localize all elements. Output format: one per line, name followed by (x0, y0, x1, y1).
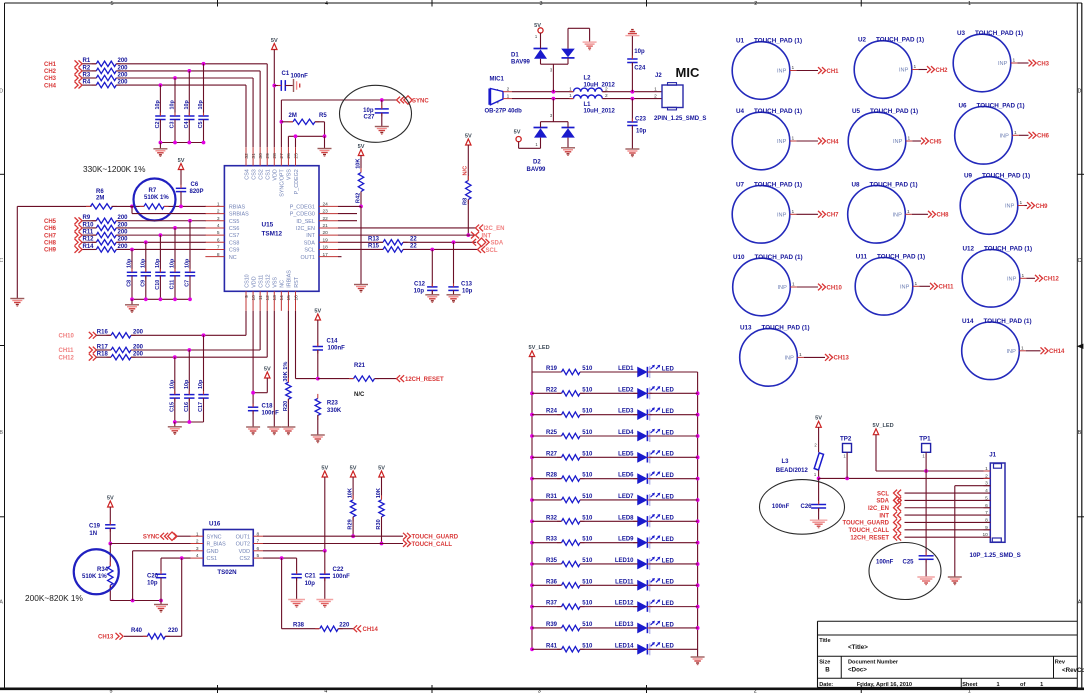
ellipse around C27 (340, 85, 412, 142)
pin 4 U15 left (205, 223, 239, 232)
offpage connector SYNC (397, 96, 430, 105)
svg-text:U12: U12 (962, 245, 974, 252)
offpage connector CH13 (825, 354, 850, 362)
svg-text:INT: INT (306, 233, 315, 239)
svg-text:5V: 5V (107, 495, 114, 501)
svg-text:CH11: CH11 (939, 285, 955, 291)
svg-text:10P_1.25_SMD_S: 10P_1.25_SMD_S (970, 552, 1021, 559)
pin 7 U15 left (205, 245, 239, 254)
svg-text:INP: INP (893, 139, 903, 145)
resistor R20 30K 1% (283, 311, 291, 427)
ground C27 (375, 127, 389, 135)
svg-text:1: 1 (791, 65, 794, 71)
svg-text:4: 4 (325, 1, 328, 7)
LED LED13 (615, 621, 675, 634)
pin 1 U16 left (191, 531, 222, 540)
svg-text:9: 9 (244, 295, 250, 298)
svg-text:CS12: CS12 (266, 274, 272, 288)
svg-text:5: 5 (257, 553, 260, 559)
offpage connector CH2 (927, 66, 948, 74)
wire CS1 net (161, 556, 191, 574)
svg-text:INT: INT (482, 233, 492, 239)
svg-text:CH7: CH7 (44, 233, 57, 239)
LED LED8 (618, 514, 674, 527)
ground cap bank1 (153, 149, 167, 157)
resistor R14 200 (83, 244, 129, 252)
svg-text:INP: INP (999, 134, 1009, 140)
offpage connector CH14 (1041, 347, 1066, 355)
ground U16 bus (154, 605, 168, 613)
touch pad U3 (953, 30, 1023, 92)
capacitor C8 10p (127, 258, 138, 299)
capacitor C17 10p (198, 379, 209, 422)
svg-text:<Doc>: <Doc> (848, 666, 867, 673)
svg-text:CS5: CS5 (229, 219, 240, 225)
svg-text:5V: 5V (815, 416, 822, 422)
svg-text:CS6: CS6 (229, 226, 240, 232)
svg-text:1: 1 (1021, 273, 1024, 279)
ground D1 (pink) (583, 42, 597, 50)
svg-text:3: 3 (196, 546, 199, 552)
svg-text:3: 3 (217, 216, 220, 222)
wire U5 to CH5 (912, 140, 921, 142)
pin 6 U15 left (205, 237, 239, 246)
offpage connector TOUCH_CALL (403, 540, 452, 548)
node CH2 (44, 68, 82, 76)
svg-text:CH10: CH10 (59, 334, 75, 340)
pin 1 U8 (905, 209, 912, 215)
ground cap bank3 (168, 427, 182, 435)
svg-text:5V: 5V (350, 465, 357, 471)
svg-text:100nF: 100nF (772, 504, 790, 510)
svg-text:R38: R38 (293, 622, 305, 628)
touch pad U12 (962, 245, 1032, 307)
ellipse around R7 (blue) (134, 179, 176, 221)
svg-text:R_BIAS: R_BIAS (207, 542, 227, 548)
pin 1 U10 (790, 282, 797, 288)
svg-text:R35: R35 (546, 558, 558, 564)
pin 1 U13 (797, 352, 804, 358)
offpage connector CH12 (1035, 275, 1060, 283)
svg-text:R34: R34 (97, 567, 109, 573)
svg-text:CS10: CS10 (244, 274, 250, 288)
svg-text:LED12: LED12 (615, 601, 634, 607)
node CH12 (59, 354, 97, 362)
svg-text:10K: 10K (355, 159, 361, 169)
offpage connector CH9 (1027, 202, 1048, 210)
svg-text:BEAD/2012: BEAD/2012 (776, 468, 809, 474)
ground LED ladder (691, 656, 705, 665)
svg-text:510: 510 (582, 515, 593, 521)
pin 2 U15 left (205, 209, 249, 218)
wire J1 pin3 ground net (955, 486, 991, 577)
wire 5V_LED to J1 pin1 (876, 435, 990, 473)
wire LED row 2 (532, 392, 698, 394)
LED LED10 (615, 557, 675, 570)
offpage connector I2C_EN (476, 225, 505, 233)
svg-text:13: 13 (272, 295, 278, 301)
wire U2 to CH2 (918, 69, 927, 71)
pin 1 J1 (984, 466, 991, 472)
wire I2C_EN net (338, 227, 476, 229)
svg-text:Friday, April 16, 2010: Friday, April 16, 2010 (857, 682, 912, 688)
ground C22 (316, 600, 333, 608)
svg-text:RBIAS: RBIAS (229, 205, 246, 211)
svg-text:1: 1 (791, 209, 794, 215)
pin 3 J1 (984, 481, 991, 487)
ground C26 (810, 520, 828, 528)
power 5V R8 (465, 133, 472, 145)
svg-text:22: 22 (410, 244, 417, 250)
diode D2 BAV99 (527, 128, 575, 173)
svg-text:20: 20 (323, 230, 329, 236)
inductor L3 BEAD/2012 (776, 427, 824, 477)
svg-text:D1: D1 (511, 53, 519, 59)
svg-text:ID_SEL: ID_SEL (296, 219, 315, 225)
wire LED row 1 (532, 371, 698, 373)
pin 1 U4 (790, 136, 797, 142)
svg-text:VDD: VDD (239, 549, 250, 555)
svg-text:10p: 10p (185, 258, 191, 268)
svg-text:R30: R30 (376, 519, 382, 529)
LED LED11 (615, 578, 674, 591)
wire LED left rail (530, 357, 534, 652)
svg-text:N/C: N/C (463, 166, 469, 176)
node CH8 (44, 239, 82, 247)
wire U4 to CH4 (796, 140, 818, 142)
power 5V C22 (321, 465, 328, 477)
svg-text:SYNC/OPT: SYNC/OPT (280, 168, 286, 196)
svg-text:TOUCH_PAD (1): TOUCH_PAD (1) (984, 318, 1032, 325)
svg-text:2: 2 (507, 87, 510, 93)
svg-text:LED4: LED4 (618, 430, 634, 436)
svg-text:U2: U2 (858, 37, 867, 44)
svg-text:10: 10 (251, 295, 257, 301)
wire mic line bottom (512, 97, 574, 101)
pin 9 U15 bottom (244, 274, 251, 311)
wire D2 right to ground (567, 138, 569, 148)
svg-text:TOUCH_PAD (1): TOUCH_PAD (1) (877, 253, 925, 260)
capacitor C12 10p (414, 249, 438, 294)
svg-text:100nF: 100nF (291, 74, 309, 80)
offpage connector 12CH_RESET (J1) (850, 534, 901, 542)
svg-text:MIC: MIC (676, 65, 700, 80)
svg-text:L3: L3 (782, 459, 790, 465)
svg-text:220: 220 (168, 628, 179, 634)
junction CH2 (187, 69, 191, 73)
svg-text:R5: R5 (319, 113, 327, 119)
svg-text:A: A (1078, 600, 1082, 606)
svg-text:12: 12 (265, 295, 271, 301)
svg-text:U7: U7 (736, 181, 745, 188)
resistor R7 510K 1% (140, 188, 170, 209)
power 5V R30 (378, 465, 385, 477)
svg-text:5V_LED: 5V_LED (873, 423, 894, 429)
ground C25 (917, 577, 935, 585)
svg-text:330K~1200K 1%: 330K~1200K 1% (83, 164, 146, 174)
svg-text:TOUCH_PAD (1): TOUCH_PAD (1) (754, 108, 802, 115)
wire VSS bottom (273, 311, 275, 427)
svg-text:CH3: CH3 (1037, 61, 1050, 67)
ground C18 (246, 427, 260, 435)
touch pad U13 (740, 324, 810, 386)
svg-text:19: 19 (323, 237, 329, 243)
ground cap bank2 (125, 305, 139, 313)
svg-text:C23: C23 (635, 117, 647, 123)
wire CH5 net (83, 220, 206, 222)
svg-text:CH8: CH8 (937, 213, 950, 219)
svg-text:5V: 5V (514, 130, 521, 136)
wire cap bank1 verticals (160, 64, 203, 116)
node CH3 (44, 75, 82, 83)
svg-text:MIC1: MIC1 (490, 77, 505, 83)
ground C24 (inverted) (625, 30, 639, 36)
svg-text:1: 1 (907, 209, 910, 215)
svg-text:TP1: TP1 (919, 435, 931, 442)
zone letters right (1078, 89, 1082, 606)
svg-text:R7: R7 (149, 188, 157, 194)
svg-text:510: 510 (582, 473, 593, 479)
svg-text:C12: C12 (414, 282, 426, 288)
capacitor C6 820P (176, 170, 204, 207)
offpage connector CH5 (921, 138, 942, 146)
svg-text:1: 1 (1021, 345, 1024, 351)
svg-text:1: 1 (968, 1, 971, 7)
svg-text:LED1: LED1 (618, 366, 634, 372)
svg-text:C6: C6 (191, 182, 199, 188)
pin 21 U15 right (296, 223, 338, 232)
svg-text:12CH_RESET: 12CH_RESET (850, 535, 889, 541)
wire LED row 13 (532, 627, 698, 629)
svg-text:C25: C25 (903, 560, 915, 566)
svg-text:J1: J1 (989, 451, 996, 458)
wire D1 cathode to 5V (540, 33, 542, 49)
svg-text:P_CDEG2: P_CDEG2 (294, 169, 300, 194)
resistor R18 200 (97, 352, 144, 360)
svg-text:CH1: CH1 (827, 69, 840, 75)
capacitor C20 10p (147, 571, 166, 601)
svg-text:R25: R25 (546, 430, 558, 436)
power 5V C19 (107, 495, 114, 507)
svg-text:CH4: CH4 (827, 139, 840, 145)
svg-text:TOUCH_CALL: TOUCH_CALL (412, 542, 453, 548)
svg-text:10p: 10p (147, 580, 158, 586)
svg-text:R41: R41 (546, 643, 558, 649)
svg-text:TOUCH_PAD (1): TOUCH_PAD (1) (870, 108, 918, 115)
svg-text:R32: R32 (546, 515, 558, 521)
resistor R22 510 (546, 387, 593, 396)
ground R23 (311, 435, 325, 443)
svg-text:R36: R36 (546, 579, 558, 585)
svg-text:5V_LED: 5V_LED (529, 345, 550, 351)
svg-text:CH13: CH13 (98, 635, 114, 641)
junction CH4 (159, 83, 163, 87)
svg-text:1: 1 (196, 531, 199, 537)
svg-text:SYNC: SYNC (412, 98, 429, 104)
svg-text:R19: R19 (546, 366, 558, 372)
svg-text:5: 5 (111, 1, 114, 7)
svg-text:100nF: 100nF (876, 560, 894, 566)
svg-text:100nF: 100nF (262, 411, 280, 417)
ground R20 (281, 427, 295, 435)
svg-text:Title: Title (819, 638, 830, 644)
wire CH1 net (83, 64, 268, 147)
svg-text:C13: C13 (461, 282, 473, 288)
svg-text:CH2: CH2 (44, 69, 57, 75)
power 5V C14 (314, 308, 321, 320)
resistor R8 10K N/C (463, 145, 472, 235)
resistor R1 (83, 58, 129, 66)
svg-text:23: 23 (323, 209, 329, 215)
svg-text:B: B (825, 666, 830, 673)
svg-text:1: 1 (507, 94, 510, 100)
svg-text:LED8: LED8 (618, 515, 634, 521)
svg-text:R29: R29 (347, 519, 353, 529)
node CH11 (59, 347, 97, 355)
resistor R41 510 (546, 643, 593, 652)
svg-text:22: 22 (323, 216, 329, 222)
microphone MIC1 (485, 77, 523, 115)
wire TOUCH_CALL to J1 (905, 529, 991, 531)
resistor R38 220 (293, 622, 354, 631)
wire LED row 7 (532, 499, 698, 501)
wire D1 anodes bus (541, 58, 569, 92)
pin 2 J2 (654, 94, 657, 100)
svg-text:INP: INP (1007, 277, 1017, 283)
capacitor C5 10p (198, 100, 209, 143)
capacitor C13 10p (448, 242, 472, 294)
wire U9 to CH9 (1024, 205, 1027, 207)
svg-text:4: 4 (324, 689, 327, 693)
svg-text:GND: GND (207, 549, 219, 555)
wire SDA net (338, 240, 476, 244)
wire CS2 to R38 (282, 558, 319, 629)
diode D1 BAV99 (511, 49, 575, 66)
node CH7 (44, 232, 82, 240)
pin 2 U16 left (191, 539, 227, 548)
svg-text:10p: 10p (170, 258, 176, 268)
svg-text:1: 1 (799, 352, 802, 358)
pin 31 U15 top (251, 147, 258, 180)
svg-text:1: 1 (1014, 130, 1017, 136)
offpage connector 12CH_RESET (397, 375, 445, 383)
pin 16 U15 bottom (293, 276, 300, 310)
ground R5/VSS (318, 149, 332, 157)
svg-text:1: 1 (791, 136, 794, 142)
capacitor C11 10p (170, 258, 181, 299)
ground J1 pin3 (948, 577, 962, 585)
svg-text:1: 1 (792, 282, 795, 288)
capacitor C16 10p (184, 379, 195, 422)
svg-text:U6: U6 (958, 102, 967, 109)
svg-text:R28: R28 (546, 473, 558, 479)
junction CH6 cap (173, 226, 177, 230)
svg-text:CH6: CH6 (1037, 134, 1050, 140)
wire SYNC U16 (178, 535, 191, 537)
op-amp U15 TSM12 body (224, 166, 319, 292)
svg-text:LED13: LED13 (615, 622, 634, 628)
wire CH4 net (83, 85, 247, 147)
svg-text:17: 17 (323, 252, 329, 258)
svg-text:10p: 10p (305, 581, 316, 587)
svg-text:18: 18 (323, 245, 329, 251)
junction CH10 cap (202, 333, 206, 337)
wire ground bus U16 (110, 599, 163, 605)
svg-text:510: 510 (582, 409, 593, 415)
svg-text:5V: 5V (378, 465, 385, 471)
svg-text:INP: INP (784, 356, 794, 362)
svg-text:OUT2: OUT2 (236, 542, 250, 548)
capacitor C2 10p (155, 100, 166, 143)
pin 26 U15 top (286, 147, 293, 180)
ground R42 net (354, 285, 368, 293)
ground D2 (561, 148, 575, 156)
svg-text:27: 27 (279, 153, 285, 159)
svg-text:INP: INP (777, 213, 787, 219)
svg-text:10p: 10p (198, 100, 204, 110)
svg-text:CH13: CH13 (834, 356, 850, 362)
svg-text:SYNC: SYNC (207, 534, 222, 540)
svg-text:I2C_EN: I2C_EN (868, 506, 889, 512)
svg-text:Date:: Date: (819, 682, 833, 688)
capacitor C14 100nF (313, 320, 346, 379)
svg-text:510: 510 (582, 387, 593, 393)
svg-text:10uH_2012: 10uH_2012 (584, 82, 616, 88)
svg-text:R27: R27 (546, 451, 558, 457)
svg-text:100nF: 100nF (328, 346, 346, 352)
wire VDD bottom net (251, 311, 267, 407)
capacitor C1 100nF (274, 71, 308, 91)
resistor R42 10K (355, 156, 363, 207)
pin 19 U15 right (304, 237, 338, 246)
svg-text:C21: C21 (305, 574, 317, 580)
power 5V D2 (514, 130, 522, 142)
pin 12 U15 bottom (265, 274, 272, 311)
svg-text:100nF: 100nF (333, 574, 351, 580)
svg-text:BAV99: BAV99 (511, 60, 531, 66)
svg-text:510: 510 (582, 494, 593, 500)
wire U10 to CH10 (797, 286, 818, 288)
wire CH6 net (83, 227, 206, 229)
svg-text:25: 25 (293, 153, 299, 159)
resistor R37 510 (546, 601, 593, 610)
svg-text:7: 7 (217, 245, 220, 251)
svg-text:INP: INP (900, 285, 910, 291)
svg-text:2PIN_1.25_SMD_S: 2PIN_1.25_SMD_S (654, 116, 706, 122)
pin 18 U15 right (304, 245, 338, 254)
wire INT net (338, 234, 474, 236)
svg-text:NC: NC (280, 280, 286, 288)
resistor R12 200 (83, 237, 129, 245)
svg-text:U9: U9 (964, 173, 973, 180)
wire LED row 11 (532, 584, 698, 586)
svg-text:31: 31 (251, 153, 257, 159)
LED LED4 (618, 429, 674, 442)
pin 1 U11 (913, 281, 920, 287)
pin 2 MIC1 (503, 87, 512, 93)
svg-text:INT: INT (879, 513, 889, 519)
wire cap bank1 bus (159, 141, 206, 149)
svg-text:8: 8 (217, 252, 220, 258)
svg-text:C22: C22 (333, 567, 345, 573)
wire CH11 net (97, 311, 261, 350)
offpage connector INT (J1) (879, 512, 901, 520)
svg-text:OB-27P 40db: OB-27P 40db (485, 109, 523, 115)
pin 4 U16 left (191, 553, 218, 562)
svg-text:U1: U1 (736, 38, 745, 45)
svg-text:10p: 10p (414, 288, 425, 294)
node CH13 input (98, 633, 123, 641)
